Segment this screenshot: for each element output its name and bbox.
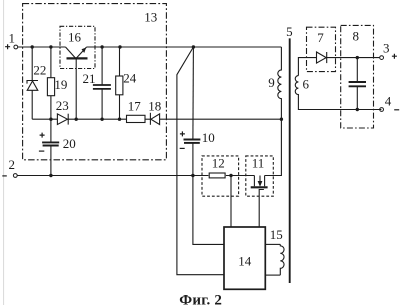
column A slant from top junction <box>177 47 224 275</box>
label 20 minus <box>39 150 44 152</box>
column B capacitor C10 <box>184 47 225 244</box>
node top junction to columns <box>192 45 195 48</box>
node mid-primary <box>280 118 283 121</box>
terminal 1 <box>5 44 10 49</box>
svg-text:6: 6 <box>303 77 310 92</box>
svg-text:1: 1 <box>9 30 16 45</box>
svg-text:4: 4 <box>385 94 392 109</box>
svg-text:11: 11 <box>252 155 265 170</box>
transformer core 5 <box>289 38 291 283</box>
svg-text:7: 7 <box>317 30 324 45</box>
resistor R17 <box>127 115 146 122</box>
svg-text:19: 19 <box>54 77 67 92</box>
wire node to module 14 <box>230 176 232 228</box>
svg-text:24: 24 <box>123 71 137 86</box>
transistor 16 <box>66 47 88 119</box>
box 7 <box>307 27 336 71</box>
svg-text:14: 14 <box>238 254 252 269</box>
box 8 <box>341 25 374 128</box>
node mid-R19/C20 <box>49 118 52 121</box>
terminal 4 <box>380 108 384 112</box>
svg-text:Фиг. 2: Фиг. 2 <box>179 292 222 305</box>
terminal 2 <box>2 175 7 177</box>
diode 23 <box>57 114 126 125</box>
svg-text:9: 9 <box>268 75 275 90</box>
svg-text:13: 13 <box>144 9 157 24</box>
label 10 plus <box>180 131 185 136</box>
svg-text:20: 20 <box>63 136 76 151</box>
zener diode 22 <box>27 47 38 119</box>
svg-text:2: 2 <box>9 157 16 172</box>
svg-text:16: 16 <box>68 29 82 44</box>
node bottom-C20 <box>49 174 52 177</box>
node C8-bottom <box>356 108 359 111</box>
svg-text:17: 17 <box>128 99 142 114</box>
wire mid rail <box>32 118 57 120</box>
svg-text:3: 3 <box>383 41 390 56</box>
scan fold line <box>3 0 5 305</box>
svg-text:22: 22 <box>33 63 46 78</box>
svg-text:18: 18 <box>148 99 161 114</box>
transistor 16 dashed box <box>60 26 95 68</box>
box 12 <box>202 156 239 196</box>
node mid-base <box>75 118 78 121</box>
box 11 <box>246 156 273 196</box>
node top-C21 <box>100 45 103 48</box>
node mid-C21 <box>100 118 103 121</box>
svg-text:12: 12 <box>212 155 225 170</box>
wire top rail left <box>18 46 66 48</box>
node mid-R24 <box>118 118 121 121</box>
svg-text:23: 23 <box>56 98 69 113</box>
resistor R12 <box>209 173 225 178</box>
capacitor C8 <box>349 58 366 110</box>
capacitor C20 electrolytic <box>42 119 59 175</box>
svg-text:10: 10 <box>202 130 215 145</box>
wire bottom rail <box>17 175 208 177</box>
wire R12 to mosfet <box>226 175 255 177</box>
box 13 <box>23 4 167 160</box>
label 10 minus <box>180 147 185 149</box>
winding 15 <box>265 244 284 275</box>
node top-R19 <box>49 45 52 48</box>
diode 7 <box>317 52 380 63</box>
diode 18 <box>145 113 281 125</box>
wire top rail right <box>87 46 282 48</box>
label 20 plus <box>40 133 45 138</box>
node top-R24 <box>118 45 121 48</box>
resistor R24 <box>116 47 123 119</box>
terminal 3 <box>380 56 384 60</box>
resistor R19 <box>47 47 54 119</box>
capacitor C21 <box>93 47 111 119</box>
svg-text:15: 15 <box>270 227 283 242</box>
transformer secondary 6 <box>295 58 381 110</box>
node bottom-C10 <box>191 174 194 177</box>
node after R12 <box>229 174 232 177</box>
svg-text:21: 21 <box>83 71 96 86</box>
node diode-C8 <box>356 56 359 59</box>
MOSFET 11 <box>251 119 282 227</box>
svg-text:8: 8 <box>353 29 360 44</box>
module 14 box <box>224 227 265 289</box>
transformer primary 9 <box>278 47 282 119</box>
node top-zener <box>31 45 34 48</box>
svg-text:5: 5 <box>286 24 293 39</box>
